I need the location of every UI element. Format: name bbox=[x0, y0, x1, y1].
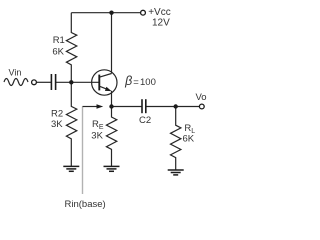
svg-text:=: = bbox=[133, 77, 139, 88]
node RL junction bbox=[174, 104, 178, 108]
resistor R1 bbox=[66, 13, 76, 83]
resistor RL bbox=[171, 107, 181, 170]
svg-text:6K: 6K bbox=[183, 134, 195, 145]
svg-text:β: β bbox=[124, 74, 132, 88]
wire collector to rail bbox=[111, 13, 113, 74]
capacitor C1 plates bbox=[51, 74, 55, 90]
transistor Q1 collector lead bbox=[99, 74, 111, 78]
capacitor C2 plates bbox=[142, 99, 146, 113]
svg-text:+Vcc: +Vcc bbox=[148, 7, 171, 18]
ground RL bbox=[168, 170, 184, 175]
svg-text:3K: 3K bbox=[51, 119, 63, 130]
wire emitter down bbox=[111, 91, 113, 107]
resistor RE bbox=[106, 107, 116, 167]
terminal +Vcc circle bbox=[141, 10, 146, 15]
svg-text:100: 100 bbox=[140, 77, 156, 88]
wire C2 to RL node bbox=[146, 106, 176, 108]
svg-text:12V: 12V bbox=[152, 18, 170, 29]
Rin(base) pointer arrow bbox=[83, 106, 98, 108]
wire input terminal to C1 bbox=[37, 81, 52, 83]
Rin(base) pointer leader bbox=[82, 107, 84, 195]
transistor Q1 circle bbox=[92, 70, 117, 95]
svg-text:C2: C2 bbox=[139, 115, 151, 126]
svg-text:Vin: Vin bbox=[9, 68, 22, 78]
node collector-rail junction bbox=[109, 11, 113, 15]
resistor R2 bbox=[66, 82, 76, 166]
terminal Vo circle bbox=[199, 104, 204, 109]
svg-text:Vo: Vo bbox=[196, 92, 207, 103]
node base junction bbox=[69, 80, 73, 84]
source Vin sine bbox=[4, 79, 28, 86]
transistor Q1 base bar bbox=[98, 75, 100, 91]
wire output node to C2 bbox=[112, 106, 143, 108]
terminal input circle bbox=[32, 80, 37, 85]
wire C1 to base bbox=[56, 81, 100, 83]
transistor Q1 emitter arrowhead bbox=[105, 87, 112, 91]
wire RL node to Vo terminal bbox=[176, 106, 200, 108]
ground R2 bbox=[63, 166, 79, 171]
svg-text:Rin(base): Rin(base) bbox=[65, 199, 106, 210]
ground RE bbox=[104, 166, 120, 171]
svg-text:6K: 6K bbox=[52, 46, 64, 57]
wire top supply rail bbox=[71, 12, 140, 14]
svg-text:3K: 3K bbox=[91, 131, 103, 142]
svg-text:R1: R1 bbox=[53, 35, 65, 46]
transistor Q1 emitter lead bbox=[99, 86, 107, 89]
node emitter-output junction bbox=[109, 104, 113, 108]
